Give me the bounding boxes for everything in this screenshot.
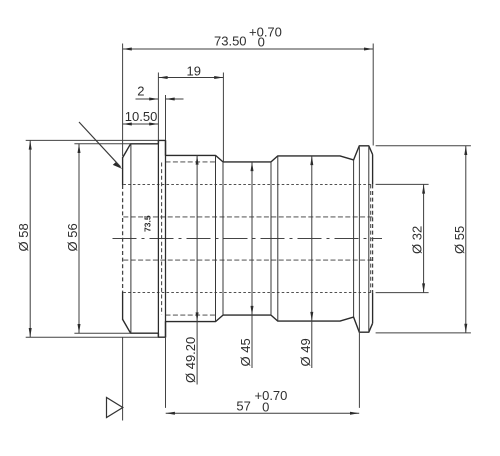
hidden bore line top O32 — [123, 183, 372, 185]
svg-text:73.50: 73.50 — [214, 34, 247, 49]
svg-text:Ø 45: Ø 45 — [238, 338, 253, 366]
dimension 2 — [136, 84, 184, 141]
svg-text:19: 19 — [187, 64, 201, 79]
dimension 19 — [158, 64, 223, 162]
dimension O49.20 — [183, 155, 199, 384]
flange chamfer edge circle — [368, 146, 370, 332]
chamfer edge circle O45 left — [222, 162, 224, 315]
dimension O55 right — [376, 146, 471, 333]
svg-text:+0.70: +0.70 — [255, 388, 288, 403]
right face hidden middle — [370, 184, 372, 292]
dimension O49 — [298, 156, 314, 368]
svg-text:Ø 55: Ø 55 — [452, 226, 467, 254]
svg-text:Ø 58: Ø 58 — [16, 223, 31, 251]
dimension O56 left — [65, 144, 131, 333]
dimension O32 right — [376, 184, 429, 292]
svg-text:0: 0 — [258, 35, 265, 50]
bead right edge — [165, 141, 167, 338]
hidden inner line upper — [123, 216, 372, 218]
svg-text:0: 0 — [262, 399, 269, 414]
dimension 73.50 +0.70/0 top — [123, 25, 374, 157]
chamfer edge circle O49.2 — [215, 155, 217, 321]
centerline — [113, 238, 383, 240]
leader line top left — [79, 122, 122, 169]
hidden bore line bottom O32 — [123, 292, 372, 294]
svg-text:Ø 49: Ø 49 — [298, 338, 313, 366]
dimension 10.50 — [123, 109, 159, 126]
cone base edge circle — [130, 144, 132, 333]
hidden groove line bottom — [166, 314, 216, 316]
taper end edge circle — [353, 160, 355, 317]
left face solid upper — [122, 158, 124, 186]
chamfer edge circle O45 right — [270, 162, 272, 315]
part outline bottom profile — [122, 315, 372, 337]
dimension 57 +0.70/0 bottom — [166, 146, 360, 415]
hidden inner line lower — [123, 259, 372, 261]
part outline top profile — [122, 140, 372, 162]
chamfer edge circle O49 — [277, 156, 279, 321]
dimension O58 left — [16, 140, 158, 337]
bead left edge — [157, 141, 159, 338]
svg-text:Ø 32: Ø 32 — [410, 226, 425, 254]
datum triangle bottom left — [107, 337, 123, 421]
right face hidden axis portion — [372, 184, 374, 292]
dimension O45 — [238, 162, 254, 368]
marking text 73.5 — [143, 215, 153, 232]
svg-text:57: 57 — [236, 398, 250, 413]
bead hidden inner edge — [161, 163, 163, 315]
svg-text:10.50: 10.50 — [125, 109, 158, 124]
svg-text:Ø 56: Ø 56 — [65, 223, 80, 251]
right face solid lower — [372, 293, 374, 324]
svg-text:Ø 49.20: Ø 49.20 — [183, 337, 198, 383]
hidden groove line top — [166, 161, 216, 163]
svg-text:+0.70: +0.70 — [249, 25, 282, 40]
svg-text:73.5: 73.5 — [143, 215, 153, 232]
left face solid lower — [122, 292, 124, 320]
left face hidden middle — [122, 185, 124, 292]
svg-text:2: 2 — [137, 84, 144, 99]
right face solid upper — [372, 155, 374, 185]
